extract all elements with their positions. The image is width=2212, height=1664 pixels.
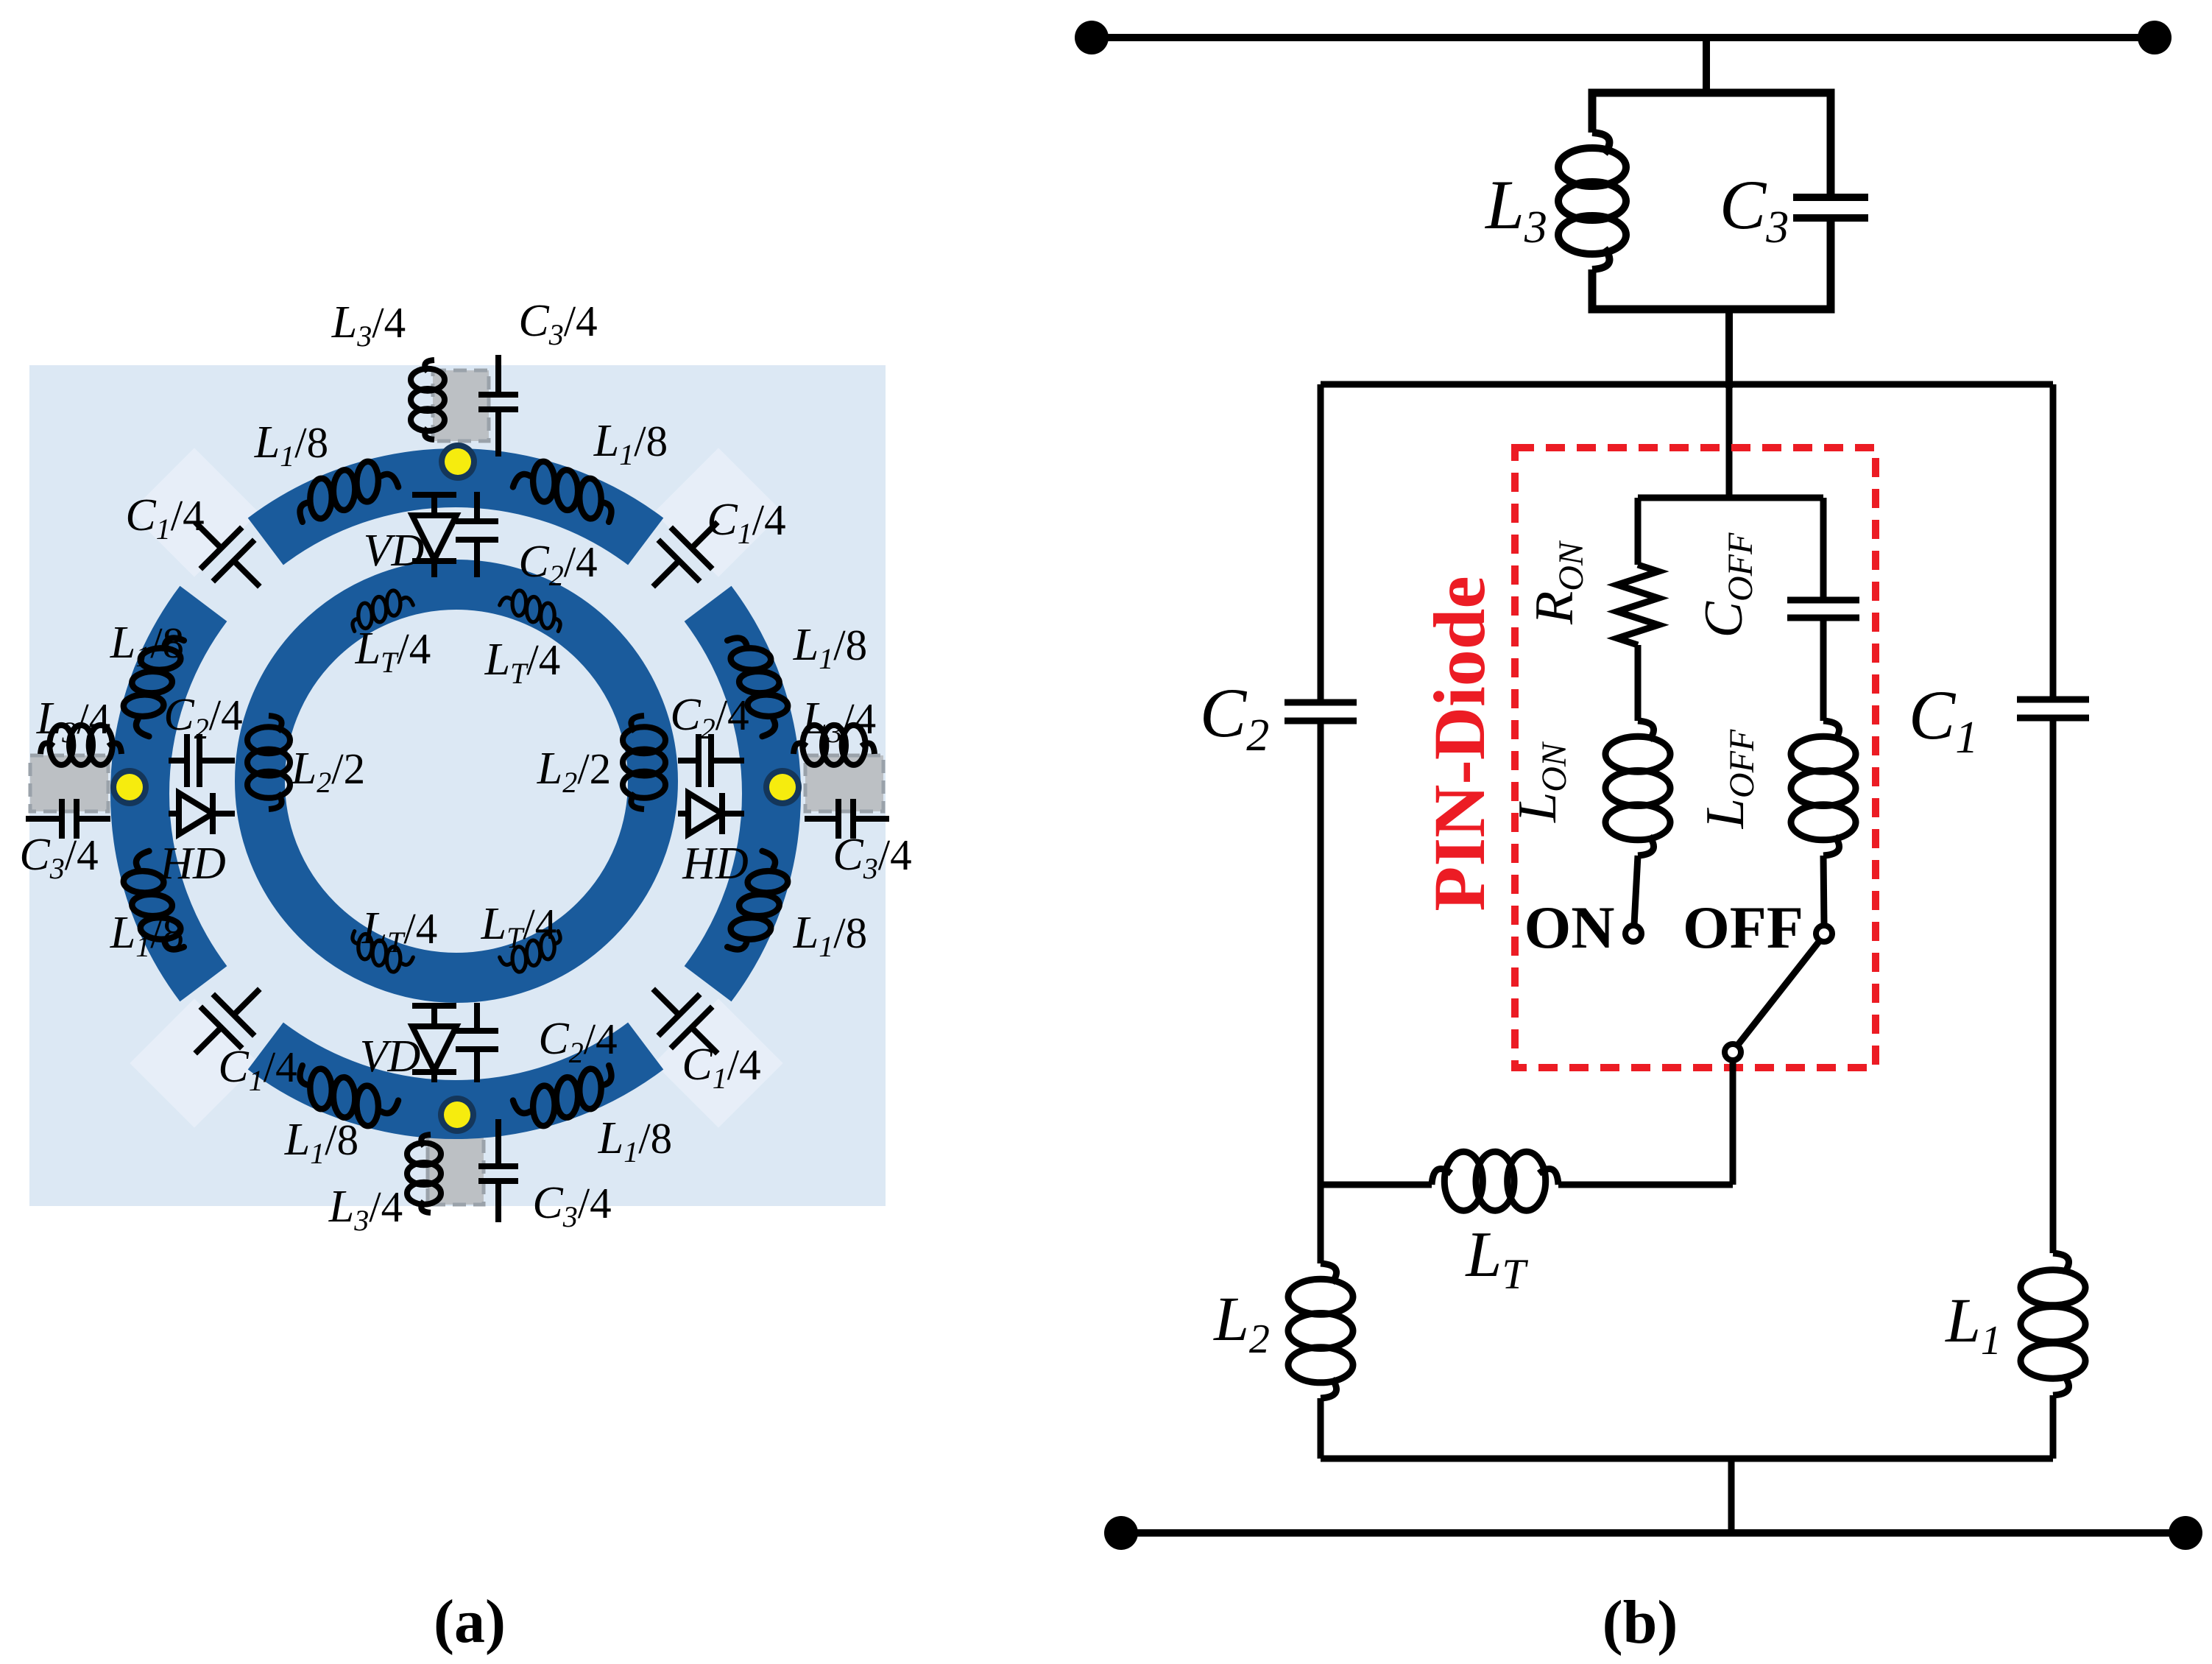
wire branch top xyxy=(1638,495,1823,501)
inductor L1/8 coil at 340deg xyxy=(721,849,798,960)
wire LT right segment xyxy=(1558,1182,1733,1188)
gray stub left xyxy=(30,755,108,811)
svg-text:OFF: OFF xyxy=(1683,894,1803,961)
gray stub right xyxy=(805,755,883,811)
capacitor C2 xyxy=(1285,699,1357,706)
capacitor C3/4 left stub xyxy=(26,816,62,822)
inductor L_OFF xyxy=(1823,721,1840,740)
panel a background substrate xyxy=(29,365,886,1206)
inductor LT/4 coil at 294deg xyxy=(498,927,568,979)
svg-text:HD: HD xyxy=(159,839,226,889)
node dot bottom-left xyxy=(1104,1516,1138,1550)
diamond patch xyxy=(654,448,782,577)
diode VD top xyxy=(431,492,437,515)
inductor L3/4 right stub xyxy=(794,743,807,754)
wire below pivot xyxy=(1730,1061,1736,1185)
diamond patch xyxy=(130,998,258,1127)
capacitor C1/4 lower-right xyxy=(632,968,738,1074)
wire left branch lower xyxy=(1634,856,1638,925)
inductor LT/4 coil at 246deg xyxy=(344,927,414,979)
wire right branch lower xyxy=(1823,856,1824,925)
capacitor C2/4 bottom xyxy=(474,1003,480,1031)
wire right rail lower xyxy=(2050,1395,2057,1459)
capacitor C2/4 left xyxy=(169,758,187,764)
svg-text:HD: HD xyxy=(682,839,749,889)
capacitor C2/4 right xyxy=(678,758,699,764)
capacitor C3/4 bottom stub xyxy=(495,1119,501,1166)
wire top rail xyxy=(1092,34,2155,41)
capacitor C1/4 upper-left xyxy=(174,501,280,607)
gray stub bottom xyxy=(428,1134,484,1205)
wire bottom rail xyxy=(1121,1529,2186,1537)
inductor L1/8 coil at 250deg xyxy=(289,1059,400,1136)
switch arm xyxy=(1738,942,1819,1045)
inductor L1/8 coil at 110deg xyxy=(289,451,400,528)
wire left branch mid xyxy=(1635,645,1642,721)
inductor L1/8 coil at 20deg xyxy=(721,627,798,738)
inductor L2 xyxy=(1321,1263,1337,1283)
node dot top-right xyxy=(2138,21,2172,54)
svg-text:VD: VD xyxy=(360,1032,421,1082)
svg-text:VD: VD xyxy=(364,526,425,576)
inductor L_ON xyxy=(1638,721,1654,740)
diode VD bottom xyxy=(431,1003,437,1026)
inductor L3/4 top stub xyxy=(425,360,434,372)
inductor L1/8 coil at 70deg xyxy=(511,451,622,528)
PIN-Diode dashed box xyxy=(1515,448,1876,1068)
inductor L3/4 left stub xyxy=(40,743,54,754)
wire left rail upper xyxy=(1318,384,1324,702)
capacitor C3/4 top stub xyxy=(495,355,501,395)
via yellow dot xyxy=(763,768,802,806)
diode HD left xyxy=(169,811,179,817)
inductor L3 xyxy=(1592,133,1609,154)
capacitor C2/4 top xyxy=(474,492,480,521)
resistor R_ON xyxy=(1617,565,1658,645)
wire stub below box xyxy=(1725,309,1733,388)
wire LT left segment xyxy=(1321,1182,1432,1188)
wire center stub upper xyxy=(1726,384,1733,498)
capacitor C1/4 upper-right xyxy=(632,501,738,607)
inductor L1/8 coil at 200deg xyxy=(113,849,190,960)
capacitor C3/4 right stub xyxy=(805,816,838,822)
capacitor C1/4 lower-left xyxy=(174,968,280,1074)
diamond patch xyxy=(654,998,782,1127)
inductor L_T xyxy=(1432,1168,1451,1185)
svg-text:(b): (b) xyxy=(1603,1588,1678,1657)
inductor L3/4 bottom stub xyxy=(421,1135,431,1146)
via yellow dot xyxy=(110,768,149,806)
wire L3C3 box xyxy=(1592,93,1831,309)
wire right branch upper xyxy=(1820,498,1827,600)
svg-text:(a): (a) xyxy=(434,1587,506,1656)
inductor LT/4 coil at 66deg xyxy=(498,583,568,635)
wire left rail mid xyxy=(1318,721,1324,1263)
capacitor C3 xyxy=(1793,194,1868,201)
inductor L1/8 coil at 160deg xyxy=(113,627,190,738)
wire left rail lower xyxy=(1318,1398,1324,1459)
inductor L2/2 left xyxy=(269,716,282,732)
switch pivot xyxy=(1725,1044,1741,1060)
node dot bottom-right xyxy=(2169,1516,2202,1550)
inductor L1 xyxy=(2053,1253,2069,1272)
terminal ON xyxy=(1625,926,1642,942)
svg-text:ON: ON xyxy=(1524,894,1615,961)
via yellow dot xyxy=(439,443,477,481)
gray stub top xyxy=(433,370,489,441)
node dot top-left xyxy=(1075,21,1109,54)
terminal OFF xyxy=(1816,926,1832,942)
capacitor C_OFF xyxy=(1787,597,1859,604)
wire left branch upper xyxy=(1635,498,1642,565)
inductor L1/8 coil at 290deg xyxy=(511,1059,622,1136)
inner ring xyxy=(260,585,653,978)
capacitor C1 xyxy=(2017,697,2089,703)
wire bottom stub xyxy=(1728,1459,1735,1533)
diode HD right xyxy=(678,811,688,817)
wire right rail upper xyxy=(2050,384,2057,699)
via yellow dot xyxy=(438,1096,476,1134)
wire loop bottom xyxy=(1321,1456,2053,1462)
wire loop top xyxy=(1321,381,2053,388)
inductor LT/4 coil at 114deg xyxy=(344,583,414,635)
wire stub from top rail xyxy=(1703,38,1710,89)
diamond patch xyxy=(130,448,258,577)
inductor L2/2 right xyxy=(631,716,644,732)
svg-text:PIN-Diode: PIN-Diode xyxy=(1418,576,1500,912)
wire right rail mid xyxy=(2050,718,2057,1253)
outer ring arcs xyxy=(266,478,646,541)
wire right branch mid xyxy=(1820,618,1827,721)
